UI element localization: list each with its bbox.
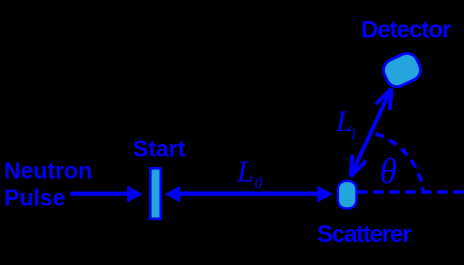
angle arc theta (dashed)	[375, 134, 423, 190]
svg-text:Pulse: Pulse	[4, 185, 65, 211]
svg-text:Scatterer: Scatterer	[317, 221, 411, 248]
arrow L1 (double-headed flight path scatterer to detector)	[351, 89, 392, 177]
start detector bar	[150, 168, 161, 219]
arrow L0 (double-headed between start and scatterer)	[165, 186, 333, 203]
svg-text:1: 1	[350, 126, 358, 143]
detector D1 (rotated rounded box)	[380, 50, 424, 90]
arrow neutron pulse (beam arrow)	[70, 186, 143, 203]
dashed beam axis line	[357, 190, 464, 194]
svg-text:Neutron: Neutron	[4, 158, 92, 184]
svg-text:L: L	[236, 155, 254, 189]
scatterer S1 (pill)	[338, 181, 357, 209]
svg-text:Start: Start	[133, 136, 186, 162]
svg-text:Detector: Detector	[361, 17, 451, 44]
svg-text:0: 0	[255, 175, 263, 192]
svg-text:θ: θ	[380, 151, 398, 191]
